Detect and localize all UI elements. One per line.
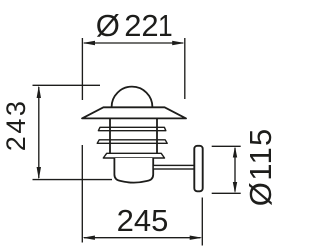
lamp dome — [112, 87, 153, 107]
extension line 243 bottom — [33, 179, 113, 181]
dimension line 245 — [82, 236, 202, 240]
svg-text:Ø115: Ø115 — [243, 127, 278, 206]
extension line Ø221 right — [184, 38, 186, 99]
extension line Ø115 top — [212, 145, 241, 147]
dimension line Ø115 — [233, 146, 237, 193]
extension line Ø115 bottom — [212, 192, 241, 194]
lamp body — [114, 158, 153, 183]
lamp collar — [103, 153, 164, 158]
extension line 245 left — [81, 145, 83, 243]
extension line Ø221 left — [81, 38, 83, 100]
dimension line Ø221 — [82, 41, 184, 45]
svg-text:Ø: Ø — [96, 8, 120, 43]
extension line 243 top — [33, 84, 101, 86]
svg-text:243: 243 — [1, 98, 31, 151]
lamp arm — [153, 165, 194, 169]
svg-text:22: 22 — [124, 8, 158, 43]
extension line 245 right — [201, 198, 203, 246]
lamp support rod right — [156, 118, 158, 153]
lamp shade brim — [82, 107, 186, 118]
dimension line 243 — [37, 86, 41, 180]
svg-text:245: 245 — [117, 203, 169, 238]
lamp louver 2 — [97, 140, 167, 144]
lamp support rod left — [109, 118, 111, 153]
wall plate — [194, 146, 202, 192]
lamp louver 1 — [98, 127, 165, 130]
svg-text:1: 1 — [158, 9, 173, 43]
